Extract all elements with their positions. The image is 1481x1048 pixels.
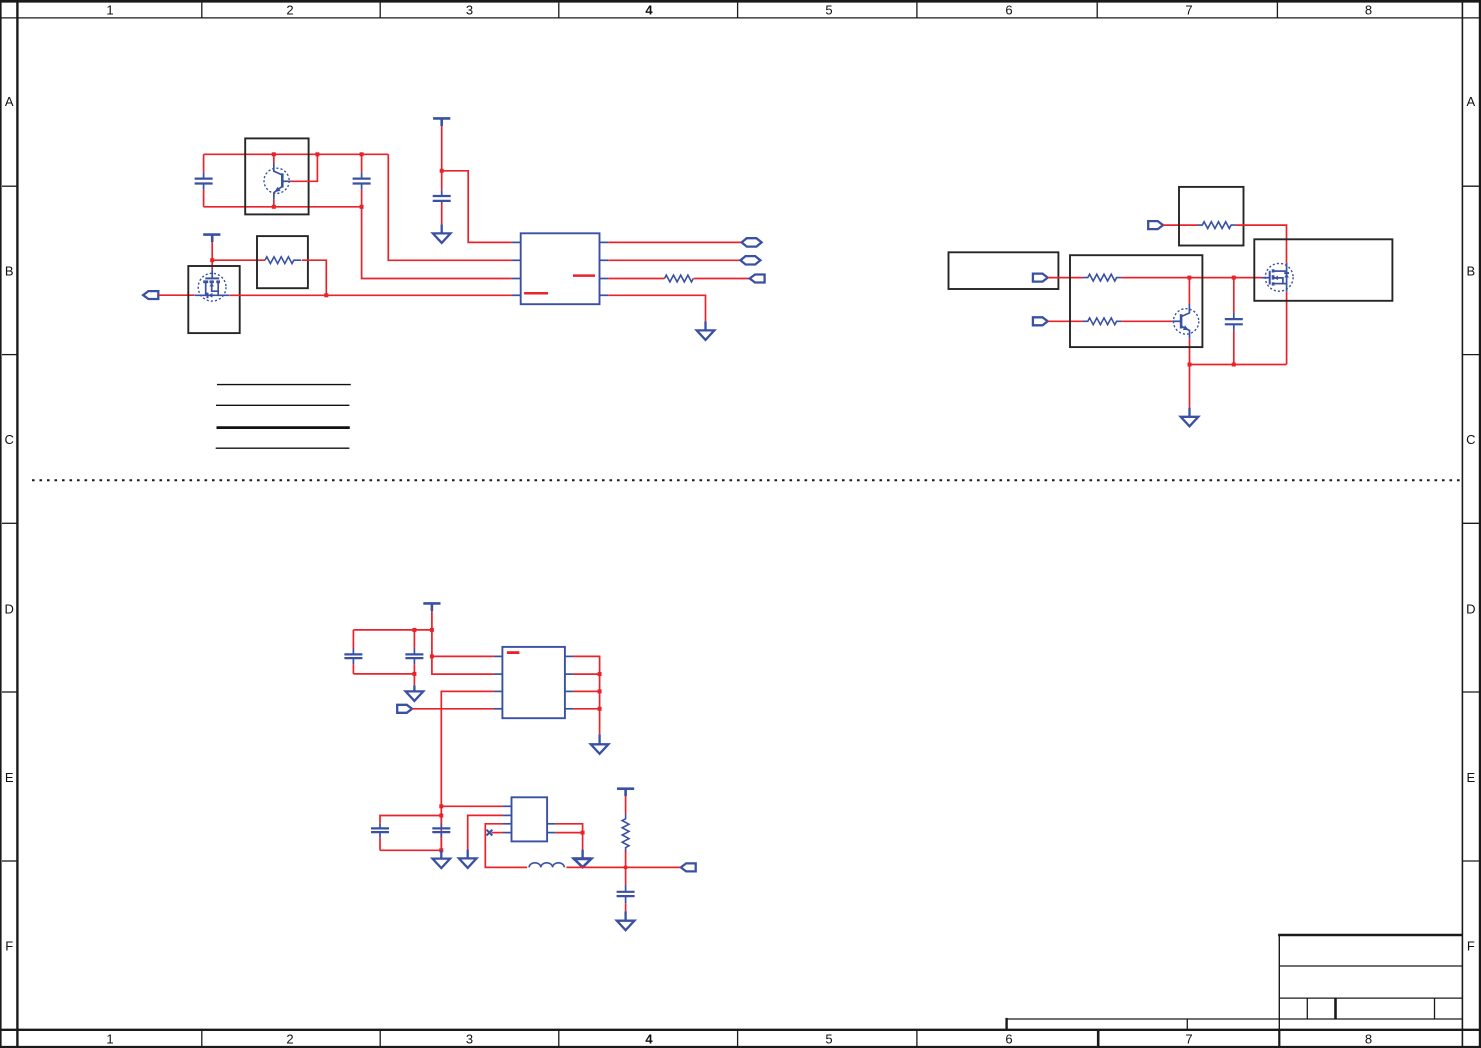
title block row line 3 bbox=[1279, 1018, 1462, 1020]
wire node to U1 pin1 bbox=[442, 171, 512, 243]
column numbers top bbox=[106, 3, 1372, 18]
box spare BL bbox=[949, 252, 1059, 289]
wire U2 pin3 long vertical bbox=[441, 691, 494, 806]
power VCC2 bar bbox=[433, 118, 450, 126]
title block outline bbox=[1278, 935, 1462, 1030]
wire P1 to M1 gate bbox=[158, 294, 194, 296]
box around R5 bbox=[1179, 187, 1244, 246]
node J6 bbox=[272, 205, 276, 209]
title block row line 1 bbox=[1279, 965, 1462, 967]
wire VCC2 down bbox=[441, 126, 443, 171]
wire PO4 to U2 pin4 bbox=[412, 708, 494, 710]
svg-text:E: E bbox=[5, 770, 14, 785]
box middle BM bbox=[1070, 255, 1202, 347]
capacitor C7 bbox=[371, 823, 389, 850]
node J18 bbox=[598, 689, 602, 693]
svg-text:A: A bbox=[5, 94, 14, 109]
row ticks left strip bbox=[2, 186, 17, 861]
svg-text:2: 2 bbox=[286, 1031, 293, 1046]
svg-text:2: 2 bbox=[286, 3, 293, 18]
capacitor C9 bbox=[617, 884, 635, 911]
wire U3 pin3 to inductor bbox=[485, 824, 527, 868]
node J22 bbox=[439, 848, 443, 852]
node J21 bbox=[439, 814, 443, 818]
port PO5 bbox=[681, 863, 696, 871]
svg-text:F: F bbox=[5, 939, 13, 954]
svg-text:8: 8 bbox=[1365, 1031, 1372, 1046]
node J12 bbox=[1232, 363, 1236, 367]
wire to ground G4 bbox=[413, 674, 415, 685]
wire node to U3 pin1 bbox=[441, 805, 503, 807]
ground G4 bbox=[406, 685, 424, 701]
ground below U1 pin4 bbox=[697, 321, 715, 340]
node J16 bbox=[430, 654, 434, 658]
port PO4 bbox=[397, 705, 412, 713]
svg-text:5: 5 bbox=[825, 1031, 832, 1046]
svg-text:7: 7 bbox=[1185, 1031, 1192, 1046]
svg-text:1: 1 bbox=[106, 3, 113, 18]
wire U1 pin2 out bbox=[608, 259, 740, 261]
capacitor C1 bbox=[195, 154, 213, 207]
dotted section separator line bbox=[32, 479, 1462, 481]
wire node to U2 pin1 bbox=[432, 655, 494, 657]
ground G7 bbox=[459, 850, 477, 868]
wire R5 to M2 drain bbox=[1236, 225, 1287, 263]
box around M1 bbox=[188, 266, 239, 333]
svg-text:1: 1 bbox=[106, 1031, 113, 1046]
inductor L1 bbox=[529, 863, 564, 868]
capacitor C5 bbox=[344, 630, 362, 674]
node J15 bbox=[412, 672, 416, 676]
row ticks right strip bbox=[1462, 186, 1479, 861]
row letters right bbox=[1466, 94, 1475, 954]
svg-text:8: 8 bbox=[1365, 3, 1372, 18]
wire VCC1 to node bbox=[211, 242, 213, 260]
svg-text:4: 4 bbox=[645, 3, 653, 18]
wire R2 to port bbox=[694, 278, 750, 280]
wire bottom rail right bbox=[1190, 364, 1287, 366]
svg-text:C: C bbox=[1466, 432, 1475, 447]
svg-text:3: 3 bbox=[466, 3, 473, 18]
node J8 bbox=[440, 169, 444, 173]
wire U1 pin1 out bbox=[608, 241, 741, 243]
wire PR2 to R4 bbox=[1048, 320, 1083, 322]
ground TR bbox=[1181, 408, 1199, 427]
power VCC1 bar bbox=[203, 235, 220, 243]
wire U2 right bus bbox=[573, 656, 599, 734]
resistor R4 bbox=[1083, 318, 1121, 325]
node J9 bbox=[1187, 276, 1191, 280]
svg-text:6: 6 bbox=[1005, 3, 1012, 18]
wire PR1 to R3 bbox=[1048, 277, 1083, 279]
wire R3 to M2 gate bbox=[1121, 277, 1262, 279]
box around M2 bbox=[1254, 239, 1392, 300]
wire R1 to line bbox=[302, 260, 326, 295]
mosfet M2 bbox=[1262, 263, 1293, 365]
node J23 bbox=[581, 831, 585, 835]
wire top rail bbox=[204, 153, 389, 155]
node J1 bbox=[210, 258, 214, 262]
svg-text:6: 6 bbox=[1005, 1031, 1012, 1046]
node J10 bbox=[1232, 276, 1236, 280]
resistor R2 bbox=[665, 275, 694, 282]
svg-text:4: 4 bbox=[645, 1031, 653, 1046]
port PR2 bbox=[1033, 317, 1048, 325]
wire U3 right pins bbox=[556, 824, 583, 851]
svg-text:B: B bbox=[5, 263, 14, 278]
svg-text:A: A bbox=[1466, 94, 1475, 109]
power VCC3 bar bbox=[423, 603, 440, 611]
transistor Q2 bbox=[1172, 278, 1199, 365]
box around Q1 bbox=[245, 138, 308, 214]
revision table lines bbox=[216, 385, 351, 449]
resistor R1 bbox=[265, 257, 301, 264]
wire inductor to port bbox=[566, 866, 681, 868]
ground G8 bbox=[573, 850, 592, 867]
svg-text:F: F bbox=[1467, 939, 1475, 954]
box around R1 bbox=[257, 236, 308, 288]
svg-text:5: 5 bbox=[825, 3, 832, 18]
capacitor C2 bbox=[353, 154, 371, 207]
node J7 bbox=[360, 205, 364, 209]
wire U1 pin3 to R2 bbox=[608, 278, 664, 280]
node J19 bbox=[598, 707, 602, 711]
wire R6 to line bbox=[625, 851, 627, 868]
capacitor C6 bbox=[405, 630, 423, 674]
IC U3 bbox=[503, 797, 556, 841]
resistor R5 bbox=[1198, 222, 1236, 229]
wire vertical to caps bbox=[440, 806, 442, 850]
node J11 bbox=[1188, 363, 1192, 367]
port PR1 bbox=[1033, 274, 1048, 282]
svg-text:3: 3 bbox=[466, 1031, 473, 1046]
offpage port PO1 bbox=[742, 238, 762, 246]
node J24 bbox=[624, 865, 628, 869]
wire U3 pin2 to ground bbox=[468, 815, 503, 849]
resistor R3 bbox=[1083, 274, 1121, 281]
wire left cap branch bbox=[380, 816, 441, 824]
row letters left bbox=[5, 94, 14, 954]
wire top rail caps bbox=[353, 629, 432, 631]
svg-text:D: D bbox=[5, 601, 14, 616]
mosfet M1 bbox=[194, 269, 229, 301]
column ticks top strip bbox=[202, 3, 1278, 18]
node J4 bbox=[315, 152, 319, 156]
wire rail to U1 pin2 bbox=[388, 154, 511, 260]
wire U1 pin4 to ground bbox=[608, 295, 705, 321]
node J17 bbox=[598, 672, 602, 676]
barcode strip box bbox=[1007, 1018, 1280, 1030]
power VCC4 bar bbox=[617, 789, 634, 797]
ground below C3 bbox=[433, 224, 451, 243]
svg-text:D: D bbox=[1466, 601, 1475, 616]
IC U1 bbox=[512, 233, 609, 304]
port PO3 bbox=[750, 275, 765, 283]
title block row line 2 bbox=[1279, 997, 1462, 999]
wire PR3 to R5 bbox=[1163, 224, 1198, 226]
svg-text:7: 7 bbox=[1185, 3, 1192, 18]
wire C2 to U1 pin3 bbox=[362, 207, 512, 279]
wire VCC3 down bbox=[431, 611, 433, 656]
svg-text:B: B bbox=[1466, 263, 1475, 278]
svg-text:E: E bbox=[1466, 770, 1475, 785]
no-connect X on U3 pin4 bbox=[487, 830, 493, 836]
transistor Q1 bbox=[264, 154, 291, 207]
node J20 bbox=[439, 804, 443, 808]
wire line to C9 bbox=[625, 867, 627, 884]
port PR3 bbox=[1148, 221, 1163, 229]
IC U2 bbox=[494, 647, 574, 718]
wire M1 to U1 pin4 bbox=[230, 294, 512, 296]
wire node to R1 bbox=[212, 259, 265, 261]
svg-text:C: C bbox=[5, 432, 14, 447]
wire VCC4 to R6 bbox=[625, 796, 627, 814]
node J3 bbox=[272, 152, 276, 156]
wire R4 to Q2 base bbox=[1121, 320, 1172, 322]
ground G6 bbox=[433, 850, 451, 868]
node J13 bbox=[412, 628, 416, 632]
title block cell dividers bbox=[1307, 998, 1434, 1019]
wire Q1 base loop bbox=[291, 154, 318, 181]
port P1 input bbox=[143, 291, 158, 299]
column numbers bottom bbox=[106, 1031, 1372, 1046]
node J2 bbox=[324, 293, 328, 297]
wire drain M1 bbox=[211, 260, 213, 269]
wire U3 pin4 stub bbox=[492, 832, 504, 834]
offpage port PO2 bbox=[740, 256, 760, 264]
resistor R6 vertical bbox=[622, 814, 629, 852]
capacitor C3 bbox=[433, 171, 451, 225]
wire to ground TR bbox=[1189, 365, 1191, 408]
capacitor C8 bbox=[432, 816, 450, 851]
wire bottom rail bbox=[204, 206, 362, 208]
node J5 bbox=[360, 152, 364, 156]
capacitor C4 bbox=[1225, 278, 1243, 365]
wire node to U2 pin2 bbox=[432, 656, 494, 674]
ground G5 bbox=[591, 734, 609, 753]
wire bottom rail caps bbox=[353, 673, 414, 675]
ground G9 bbox=[617, 911, 635, 930]
node J14 bbox=[430, 628, 434, 632]
column ticks bottom strip bbox=[202, 1030, 1280, 1047]
wire caps bottom rail bbox=[380, 849, 441, 851]
